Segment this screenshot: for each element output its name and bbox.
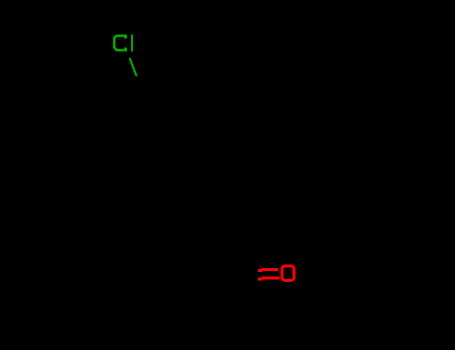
double bond C=O upper line (red half) [258,268,278,272]
bond C-Cl (green half) [130,58,137,76]
atom label Cl : letter C [114,36,125,51]
atom label Cl : letter l [131,34,133,51]
atom label O [282,266,294,281]
double bond C=O lower line (red half) [258,277,279,281]
